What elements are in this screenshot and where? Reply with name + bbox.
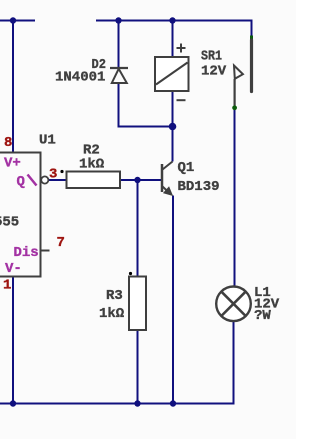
node junction top-left [10,17,16,23]
pin name Q overbar slash [28,175,37,186]
wire relay coil plus to top rail [172,21,174,58]
node junction top at relay column [169,17,175,23]
svg-text:R3: R3 [106,288,123,304]
U1 pin 7 stub [41,250,50,252]
svg-text:12V: 12V [201,64,227,80]
transistor Q1 emitter arrow [164,187,173,195]
svg-text:Q1: Q1 [178,160,195,176]
resistor R3 [129,277,146,331]
relay switch lever green pin dot [232,105,237,110]
svg-text:1: 1 [3,278,11,294]
diode D2 triangle [112,69,127,83]
svg-text:1kΩ: 1kΩ [99,306,125,322]
transistor Q1 collector diagonal [163,162,173,170]
node junction bottom at R3 [134,400,140,406]
transistor Q1 base bar [161,164,164,192]
wire R3 down to bottom rail [137,330,139,404]
relay plus sign [177,44,186,53]
node junction top at D2 column [115,17,121,23]
wire U1 pin 1 down to bottom rail [12,277,14,404]
lamp L1 circle [216,287,251,322]
relay SR1 coil diagonal [156,63,188,85]
U1 pin 3 inversion bubble [41,176,48,183]
node junction bottom at emitter [170,400,176,406]
relay switch actuator triangle [234,66,243,79]
wire top rail left segment [0,20,35,22]
wire U1 pin3 bubble to R2 [49,179,67,181]
lamp L1 cross [221,292,245,316]
svg-text:U1: U1 [39,133,56,149]
svg-text:V-: V- [5,261,22,277]
wire V+ rail down to U1 pin 8 [12,21,14,153]
relay switch lever [234,79,236,106]
relay switch fixed contact bar [250,40,253,92]
svg-text:SR1: SR1 [201,49,222,65]
relay minus sign [177,99,186,101]
svg-text:8: 8 [4,135,12,151]
relay switch fixed contact green tip [250,36,253,41]
svg-text:1N4001: 1N4001 [55,70,105,86]
svg-text:Q: Q [17,174,25,190]
relay SR1 coil box [155,57,189,91]
wire relay coil minus down to junction [172,91,174,127]
svg-text:?W: ?W [254,308,271,324]
resistor R2 pin1 dot [60,170,63,173]
svg-text:BD139: BD139 [178,179,220,195]
svg-text:1kΩ: 1kΩ [79,157,105,173]
resistor R3 pin1 dot [129,272,132,275]
svg-text:Dis: Dis [14,245,39,261]
wire junction down to Q1 collector [172,127,174,162]
svg-text:3: 3 [49,167,57,183]
svg-text:V+: V+ [4,156,21,172]
transistor Q1 emitter diagonal [163,187,171,194]
wire top rail right segment with corner down to switch [96,21,252,38]
wire D2 anode down and right to relay minus node [119,84,173,127]
resistor R2 [67,172,121,189]
svg-text:7: 7 [57,235,65,251]
node junction bottom-left [10,400,16,406]
op-amp U1 555 timer box [0,153,41,277]
wire D2 cathode up to top rail [118,21,120,69]
svg-text:555: 555 [0,215,19,231]
wire switch lever down to lamp [234,109,236,287]
diode D2 cathode bar [110,67,128,69]
wire junction down to R3 [137,180,139,277]
wire bottom rail with corner up to lamp [0,322,234,404]
wire R2 to Q1 base [120,179,161,181]
node junction relay minus / collector [169,123,177,131]
node junction R2/R3/base [134,177,140,183]
wire Q1 emitter down to bottom rail [172,196,174,404]
